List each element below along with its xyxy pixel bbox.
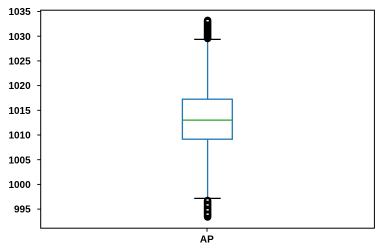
svg-text:1035: 1035 <box>8 7 31 18</box>
svg-text:995: 995 <box>14 205 31 216</box>
y tick 1015 <box>37 109 41 111</box>
lower flier hole 4 <box>206 213 209 215</box>
x tick <box>206 228 208 232</box>
lower flier hole 1 <box>206 199 209 201</box>
upper whisker <box>207 39 209 99</box>
lower flier hole 3 <box>206 209 209 211</box>
svg-text:1030: 1030 <box>8 32 31 43</box>
y tick 1010 <box>37 134 41 136</box>
y tick 995 <box>37 208 41 210</box>
svg-text:1015: 1015 <box>8 106 31 117</box>
svg-text:1010: 1010 <box>8 131 31 142</box>
lower whisker <box>207 139 209 198</box>
y tick 1035 <box>37 11 41 13</box>
upper cap <box>194 38 221 40</box>
svg-text:1005: 1005 <box>8 155 31 166</box>
lower fliers cluster <box>204 201 212 217</box>
y tick 1025 <box>37 60 41 62</box>
upper flier hole <box>206 20 209 22</box>
svg-text:1025: 1025 <box>8 57 31 68</box>
lower cap <box>194 197 221 199</box>
svg-text:AP: AP <box>200 235 214 246</box>
svg-text:1000: 1000 <box>8 180 31 191</box>
lower flier hole 2 <box>206 204 209 206</box>
y tick 1000 <box>37 183 41 185</box>
box <box>182 99 232 139</box>
axes frame <box>41 10 375 228</box>
upper fliers cluster <box>204 20 212 38</box>
y tick 1020 <box>37 85 41 87</box>
svg-text:1020: 1020 <box>8 81 31 92</box>
y tick 1030 <box>37 35 41 37</box>
y tick 1005 <box>37 159 41 161</box>
median <box>182 119 232 121</box>
